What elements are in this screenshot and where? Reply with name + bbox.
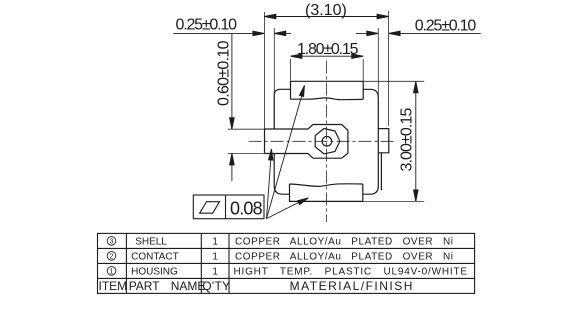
svg-text:3: 3 xyxy=(109,236,113,245)
dim 0.25 right leader xyxy=(389,32,481,34)
svg-text:HOUSING: HOUSING xyxy=(131,266,178,277)
svg-text:3.00±0.15: 3.00±0.15 xyxy=(398,108,415,172)
table row 3: HOUSING xyxy=(131,266,468,277)
svg-text:Q'TY: Q'TY xyxy=(202,279,230,293)
centerlines xyxy=(249,61,396,223)
ext line y=153.4 (0.60 bottom) xyxy=(228,152,265,154)
shell right fold line xyxy=(380,153,382,190)
dim 3.00 vertical xyxy=(415,81,417,201)
horizontal centerline xyxy=(249,140,396,142)
item circled numbers xyxy=(107,237,116,276)
flatness callout 0.08 xyxy=(193,195,264,219)
center ring circle xyxy=(315,129,340,154)
shell bottom tab wavy break edge xyxy=(290,184,363,187)
vertical centerline xyxy=(326,61,328,223)
feature control frame box xyxy=(193,195,264,219)
svg-text:1: 1 xyxy=(212,236,218,247)
contact band left lead xyxy=(265,125,313,159)
ext line y=81.3 (3.00 top) xyxy=(363,80,424,82)
svg-text:(3.10): (3.10) xyxy=(305,2,347,19)
table row 2: CONTACT xyxy=(131,251,453,262)
svg-text:0.25±0.10: 0.25±0.10 xyxy=(415,18,477,35)
ext line x=388.6 (3.10 right / contact right) xyxy=(388,11,390,126)
contact center boss octagon xyxy=(313,125,348,159)
dim 0.25 left leader xyxy=(173,32,264,34)
shell bottom tab xyxy=(290,184,363,201)
leader C to bottom tab xyxy=(267,200,305,219)
part body outline (housing/shell) xyxy=(265,81,389,201)
dim 0.60 vertical xyxy=(231,34,233,129)
ext line x=290.5 (1.80 left) xyxy=(290,59,292,81)
shell top tab xyxy=(291,81,364,99)
svg-text:SHELL: SHELL xyxy=(135,236,167,247)
ext line y=129.2 (0.60 top) xyxy=(228,128,265,130)
svg-text:1: 1 xyxy=(212,266,218,277)
svg-text:ITEM: ITEM xyxy=(99,279,128,293)
svg-text:0.60±0.10: 0.60±0.10 xyxy=(216,40,233,106)
dim (3.10) line xyxy=(264,16,388,18)
ext line x=274.3 (body left edge up) xyxy=(273,28,275,129)
body rounded square xyxy=(274,89,378,194)
center pin circle xyxy=(322,137,332,147)
svg-text:MATERIAL/FINISH: MATERIAL/FINISH xyxy=(290,279,414,293)
svg-text:1: 1 xyxy=(109,266,113,275)
parallelogram flatness symbol xyxy=(200,202,220,214)
svg-text:COPPER ALLOY/Au PLATED OVER Ni: COPPER ALLOY/Au PLATED OVER Ni xyxy=(235,236,454,247)
svg-text:CONTACT: CONTACT xyxy=(131,251,179,262)
BOM table grid xyxy=(98,233,475,293)
table row 1: SHELL xyxy=(135,236,453,247)
dimension texts xyxy=(176,2,477,219)
ext line x=264.4 (3.10 left / contact lead left) xyxy=(263,12,265,129)
extension lines (thin) xyxy=(228,11,425,201)
shell top tab wavy break edge xyxy=(291,98,364,100)
dim 1.80 line xyxy=(291,55,364,57)
svg-text:PART NAME: PART NAME xyxy=(129,279,206,293)
svg-text:0.25±0.10: 0.25±0.10 xyxy=(176,16,238,33)
table header row xyxy=(99,279,414,293)
svg-text:HIGHT TEMP. PLASTIC UL94V-0/WH: HIGHT TEMP. PLASTIC UL94V-0/WHITE xyxy=(234,266,468,277)
ext line x=363.2 (1.80 right) xyxy=(362,59,364,81)
leader A to contact band xyxy=(267,154,272,219)
dimension lines with arrows xyxy=(173,14,481,201)
svg-text:2: 2 xyxy=(109,251,113,260)
svg-text:0.08: 0.08 xyxy=(230,199,263,219)
svg-text:1.80±0.15: 1.80±0.15 xyxy=(297,41,359,58)
ext line x=378.3 (body right edge up) xyxy=(377,28,379,99)
svg-text:COPPER ALLOY/Au PLATED OVER Ni: COPPER ALLOY/Au PLATED OVER Ni xyxy=(235,251,454,262)
ext line y=201.4 (3.00 bottom) xyxy=(363,200,424,202)
svg-text:1: 1 xyxy=(212,251,218,262)
contact right lead rect xyxy=(378,129,389,153)
leader B to top tab xyxy=(267,90,304,219)
